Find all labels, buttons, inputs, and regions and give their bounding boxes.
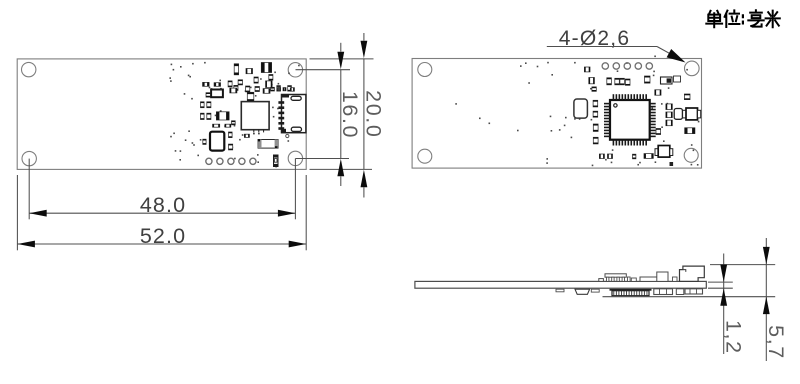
capacitor	[246, 86, 250, 92]
mounting hole bottom-left	[418, 149, 432, 163]
capacitor	[593, 137, 598, 144]
capacitor	[271, 87, 275, 91]
svg-text:1,2: 1,2	[722, 320, 746, 355]
leader line	[547, 46, 657, 48]
dimension 16.0 arrow top	[337, 52, 344, 70]
capacitor	[656, 129, 661, 135]
capacitor	[269, 75, 273, 81]
via dots (front view)	[169, 62, 299, 168]
inductor L2	[683, 108, 701, 120]
IC U2	[241, 102, 269, 135]
solder pad	[670, 162, 674, 166]
dimension 48.0 arrow right	[278, 210, 296, 217]
capacitor	[684, 94, 690, 100]
side connector	[605, 274, 626, 282]
resistor	[655, 90, 661, 95]
capacitor	[592, 87, 596, 91]
extension line board-left	[16, 175, 18, 250]
resistor	[225, 124, 231, 127]
test point	[286, 134, 289, 137]
USB connector J1	[278, 95, 306, 133]
capacitor	[206, 93, 210, 97]
extension line component-top	[710, 264, 775, 266]
mounting hole top-left	[418, 63, 432, 77]
extension line board-bottom	[310, 168, 373, 170]
capacitor	[666, 104, 672, 110]
side capacitor	[599, 279, 604, 282]
capacitor	[615, 78, 620, 85]
resistor	[584, 67, 590, 72]
capacitor	[666, 120, 672, 126]
capacitor	[593, 100, 598, 107]
side capacitor	[628, 277, 631, 281]
resistor	[608, 154, 613, 159]
dimension 1,2 arrow bottom	[720, 288, 727, 306]
svg-text:16.0: 16.0	[338, 91, 362, 139]
capacitor	[288, 86, 292, 92]
svg-text:48.0: 48.0	[140, 193, 186, 217]
extension line board-right	[305, 175, 307, 250]
side component	[640, 277, 658, 281]
mounting hole bottom-right	[684, 148, 698, 162]
resistor	[290, 88, 294, 92]
side IC below (QFP)	[610, 289, 652, 296]
diode D2	[661, 77, 673, 84]
side component below	[654, 289, 673, 295]
side capacitor	[673, 277, 678, 281]
capacitor	[254, 77, 258, 83]
capacitor	[229, 132, 233, 138]
capacitor	[593, 124, 598, 131]
resistor	[283, 88, 286, 91]
side component below	[575, 289, 590, 294]
mounting hole bottom-left	[22, 151, 36, 165]
dimension 20.0 arrow top	[361, 41, 368, 59]
dimension 5,7 arrow bottom	[763, 297, 770, 315]
IC U3 (QFP)	[604, 94, 656, 145]
capacitor	[234, 85, 238, 90]
mounting hole bottom-right	[288, 151, 302, 165]
tantalum capacitor	[674, 109, 682, 120]
resistor	[203, 82, 210, 86]
resistor	[674, 76, 681, 82]
resistor	[244, 134, 249, 137]
resistor	[644, 154, 653, 159]
capacitor	[266, 81, 273, 88]
capacitor C-big	[258, 139, 278, 148]
inductor L1	[211, 90, 223, 98]
capacitor	[666, 112, 672, 118]
shield can	[574, 99, 588, 118]
via dots (back view)	[455, 56, 699, 167]
side capacitor below	[556, 289, 564, 292]
capacitor	[228, 81, 232, 87]
capacitor	[645, 76, 651, 83]
dimension 5,7 line	[765, 238, 767, 361]
capacitor	[229, 144, 233, 150]
extension line board-bottom side	[708, 287, 733, 289]
capacitor	[246, 69, 253, 74]
resistor	[589, 78, 595, 84]
extension line component-bottom	[603, 296, 776, 298]
capacitor	[593, 111, 598, 117]
capacitor	[633, 154, 636, 159]
dimension 52.0 arrow left	[17, 241, 35, 248]
svg-text:20.0: 20.0	[361, 90, 385, 138]
capacitor	[207, 102, 211, 108]
capacitor	[247, 92, 254, 101]
capacitor	[261, 63, 271, 73]
svg-text:52.0: 52.0	[140, 224, 186, 248]
unit note	[706, 10, 780, 27]
capacitor	[201, 102, 205, 108]
side USB connector	[680, 266, 705, 281]
resistor	[234, 64, 238, 75]
side component tall	[657, 272, 668, 281]
extension line hole-top	[296, 69, 351, 71]
capacitor	[255, 87, 259, 92]
resistor	[214, 83, 220, 87]
dimension 52.0 arrow right	[289, 241, 307, 248]
extension line hole-bottom	[296, 158, 350, 160]
dimension 48.0 line	[29, 212, 295, 214]
capacitor	[230, 88, 237, 93]
capacitor	[263, 89, 270, 94]
dimension 1,2 line	[723, 254, 725, 355]
dimension 16.0 line	[340, 43, 342, 52]
dimension 16.0 arrow bottom	[337, 159, 344, 177]
capacitor	[238, 80, 242, 85]
resistor	[685, 128, 695, 134]
mounting hole top-left	[22, 62, 36, 76]
svg-text:5,7: 5,7	[764, 325, 788, 360]
side capacitor below	[591, 289, 599, 292]
pads P1-P5	[206, 158, 256, 164]
extension line board-top	[310, 58, 374, 60]
extension line board-top side	[708, 281, 733, 283]
resistor	[278, 88, 281, 92]
capacitor	[232, 121, 236, 125]
pads back P1-P5	[602, 63, 652, 69]
capacitor	[607, 78, 612, 85]
extension line hole-left	[28, 159, 30, 220]
dimension 20.0 arrow bottom	[361, 170, 368, 188]
capacitor	[203, 139, 206, 144]
inductor L3	[655, 146, 673, 158]
capacitor	[277, 86, 281, 92]
dimension 20.0 line	[363, 33, 365, 41]
mounting hole top-right	[288, 63, 302, 77]
leader arrowhead	[667, 49, 686, 63]
side component below	[676, 289, 684, 295]
side capacitor	[631, 278, 636, 281]
LED D1	[274, 155, 279, 167]
capacitor	[625, 79, 630, 85]
capacitor	[216, 112, 229, 120]
dimension 5,7 arrow top	[763, 247, 770, 265]
extension line hole-right	[294, 158, 296, 219]
dimension 52.0 line	[17, 243, 306, 245]
capacitor	[201, 113, 205, 119]
capacitor	[620, 78, 625, 85]
dimension 1,2 arrow top	[720, 265, 727, 283]
resistor	[599, 154, 604, 159]
side view board	[415, 281, 706, 288]
side component below	[685, 289, 703, 294]
capacitor	[207, 113, 211, 119]
board outline (front view)	[17, 59, 306, 169]
crystal Y1	[210, 132, 224, 151]
mounting hole top-right	[685, 61, 700, 76]
resistor	[213, 124, 220, 127]
dimension 48.0 arrow left	[29, 210, 47, 217]
board outline (back view)	[412, 59, 701, 169]
